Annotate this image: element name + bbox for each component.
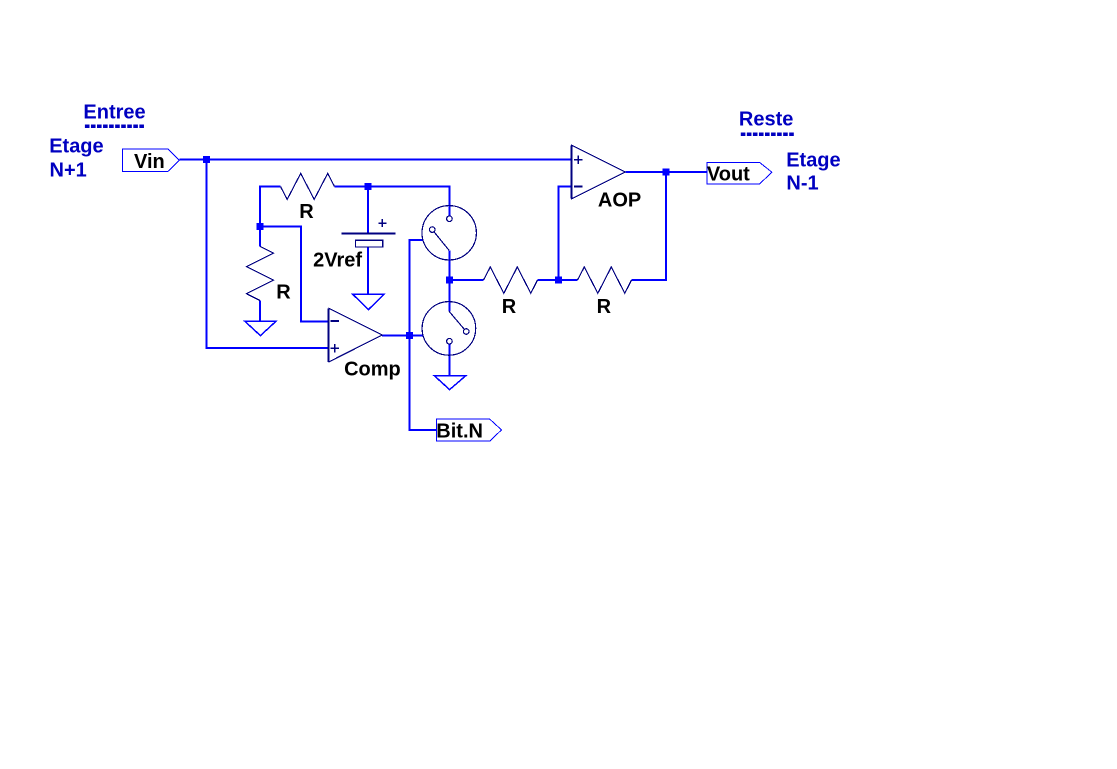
svg-text:2Vref: 2Vref (313, 249, 362, 271)
battery 2Vref top plate (341, 233, 395, 235)
wire node to battery top (367, 187, 369, 234)
svg-text:Comp: Comp (344, 359, 401, 381)
switch S1 lever (434, 232, 449, 251)
port tag Bit.N (436, 419, 501, 441)
wire S1 bottom to node (448, 250, 450, 280)
battery plus sign (378, 219, 386, 227)
switch S2 circle (422, 302, 476, 356)
wire AOP output to Vout tag (625, 171, 706, 173)
ground under R2 (245, 321, 276, 335)
svg-text:Etage: Etage (49, 135, 103, 157)
switch S2 bottom terminal (447, 338, 453, 344)
comparator minus input sign (330, 320, 339, 322)
svg-text:Vin: Vin (134, 151, 165, 173)
resistor R2 vertical (247, 246, 274, 300)
op-amp minus input sign (574, 186, 583, 188)
wire node to Comp - input (260, 227, 329, 322)
op-amp AOP triangle (572, 145, 626, 198)
wire Comp output to switch S2 (382, 334, 423, 336)
wire node B to R4 left lead (559, 279, 578, 281)
svg-text:AOP: AOP (598, 190, 641, 212)
wire main top Vin to AOP + (179, 159, 572, 161)
heading Entree dashed underline (85, 124, 144, 128)
wire battery bottom to ground (367, 247, 369, 295)
svg-text:R: R (299, 201, 314, 223)
node AOP output (663, 169, 670, 176)
node between switches (446, 277, 453, 284)
svg-text:Vout: Vout (707, 164, 750, 186)
node R1 right (365, 183, 372, 190)
ground under S2 (434, 376, 466, 390)
wire R1 left lead down to node (260, 187, 281, 247)
switch S1 circle (422, 206, 476, 260)
svg-text:N-1: N-1 (786, 173, 818, 195)
wire node down into S2 (448, 280, 450, 311)
svg-text:Entree: Entree (83, 102, 145, 124)
wire R2 bottom to ground (259, 301, 261, 322)
node Vin (203, 156, 210, 163)
comparator plus input sign (330, 344, 339, 353)
port tag Vin (123, 149, 180, 172)
svg-text:N+1: N+1 (50, 159, 87, 181)
op-amp plus input sign (574, 155, 583, 164)
resistor R3 middle (484, 267, 538, 293)
op-amp AOP left edge (570, 145, 572, 198)
svg-text:R: R (597, 296, 612, 318)
svg-text:Bit.N: Bit.N (436, 421, 483, 443)
wire node to R3 left lead (449, 279, 483, 281)
ground under battery (353, 294, 384, 309)
svg-text:Etage: Etage (786, 149, 840, 171)
node left divider (257, 223, 264, 230)
node comp output (406, 332, 413, 339)
switch S2 lever (449, 311, 464, 329)
wire R1 right lead to switch S1 top (335, 187, 450, 217)
switch S2 right terminal (463, 329, 469, 335)
heading Reste dashed underline (741, 132, 794, 136)
switch S1 top terminal (447, 216, 453, 222)
svg-text:R: R (276, 282, 291, 304)
comparator Comp left edge (327, 308, 329, 362)
resistor R1 top (281, 173, 335, 199)
node B between resistors (555, 277, 562, 284)
port tag Vout (707, 163, 772, 184)
wire R3 right lead to node (538, 279, 559, 281)
wire node B up to AOP - input (559, 187, 572, 281)
wire S2 bottom to ground (448, 344, 450, 376)
wire Vin node down and to Comp + (207, 160, 329, 349)
svg-text:R: R (502, 296, 517, 318)
svg-text:Reste: Reste (739, 109, 793, 131)
wire R4 right lead up to AOP output (632, 172, 667, 280)
wire vertical bus at comp output node (410, 240, 438, 430)
battery 2Vref bottom plate box (356, 240, 383, 247)
switch S1 left terminal (429, 227, 435, 233)
resistor R4 feedback (578, 267, 632, 293)
comparator Comp triangle (329, 308, 382, 362)
